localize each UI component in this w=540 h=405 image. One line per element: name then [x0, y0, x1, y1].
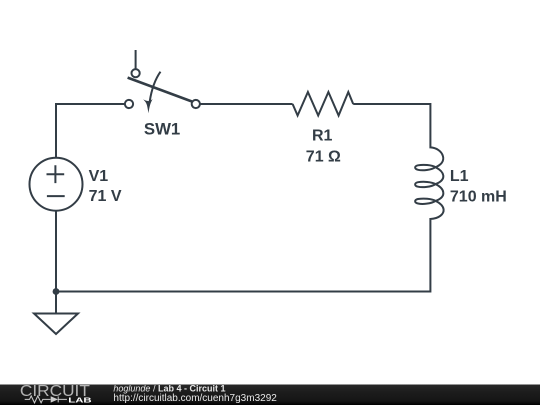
svg-text:71 Ω: 71 Ω — [306, 149, 341, 166]
ground symbol triangle — [34, 314, 78, 335]
svg-text:http://circuitlab.com/cuenh7g3: http://circuitlab.com/cuenh7g3m3292 — [113, 393, 277, 404]
voltage source V1 minus sign — [47, 195, 65, 197]
inductor L1 coil — [415, 141, 443, 224]
wire top horizontal from switch to resistor — [200, 103, 293, 105]
svg-text:710 mH: 710 mH — [450, 189, 507, 206]
wire ground stub — [55, 292, 57, 314]
junction node dot — [53, 288, 60, 295]
resistor R1 — [293, 92, 354, 116]
wire left vertical bottom (source to junction) — [55, 211, 57, 292]
svg-text:71 V: 71 V — [89, 188, 122, 205]
voltage source V1 plus sign — [47, 165, 65, 183]
wire switch top stub — [135, 50, 137, 69]
switch SW1 left terminal circle — [125, 100, 133, 108]
switch SW1 arrowhead — [143, 99, 152, 113]
svg-text:L1: L1 — [450, 168, 469, 185]
svg-text:SW1: SW1 — [144, 119, 180, 138]
svg-text:LAB: LAB — [68, 396, 92, 405]
wire top horizontal from resistor to right corner and down to inductor — [353, 104, 430, 141]
footer black bar — [0, 385, 540, 405]
wire inductor bottom to bottom-right corner and bottom horizontal — [56, 224, 430, 292]
CircuitLab logo doodle diode — [51, 396, 58, 402]
svg-text:R1: R1 — [312, 128, 333, 145]
switch SW1 blade — [128, 78, 192, 102]
switch SW1 — [125, 50, 200, 113]
switch SW1 right terminal circle — [192, 100, 200, 108]
switch SW1 actuation arrow curve — [150, 72, 161, 102]
switch SW1 top terminal circle — [132, 69, 140, 77]
svg-text:V1: V1 — [89, 168, 109, 185]
voltage source V1 circle — [30, 158, 83, 211]
svg-text:hoglunde / Lab 4 - Circuit 1: hoglunde / Lab 4 - Circuit 1 — [113, 384, 225, 394]
wire left vertical top + top-left horizontal — [56, 104, 125, 158]
CircuitLab logo doodle wire — [25, 396, 67, 403]
